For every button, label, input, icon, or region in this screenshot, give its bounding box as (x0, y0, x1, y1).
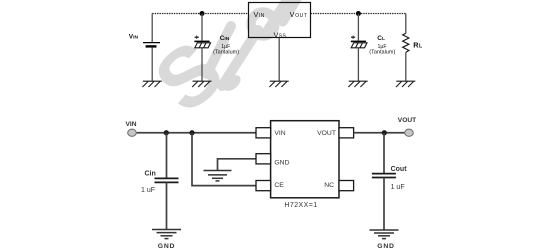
wire CIN top (201, 14, 203, 41)
ground (GND pin) signal ground (204, 171, 232, 181)
svg-text:Cout: Cout (391, 166, 408, 173)
wire output rail (354, 132, 405, 134)
wire CL top (357, 14, 359, 41)
watermark blob (220, 72, 243, 94)
pin box GND (256, 154, 271, 164)
svg-text:1 uF: 1 uF (391, 184, 405, 191)
svg-text:VOUT: VOUT (317, 130, 336, 137)
svg-text:(Tantalum): (Tantalum) (369, 50, 395, 56)
watermark letter P bowl (251, 12, 275, 36)
svg-text:CE: CE (274, 182, 284, 189)
svg-text:CL: CL (377, 35, 385, 42)
ground (CIN) (192, 81, 211, 87)
capacitor CIN (tantalum) (194, 41, 210, 47)
capacitor Cin (155, 178, 179, 182)
ground (VSS) (269, 81, 288, 87)
ground (CL) (348, 81, 367, 87)
IC U2 H72XX-1 box (271, 121, 339, 198)
wire Cin to ground (166, 182, 168, 229)
IC U1 regulator box (249, 3, 311, 38)
wire dashed rail right (311, 13, 406, 15)
ground (RL) (396, 81, 415, 87)
node junction CE (189, 130, 194, 135)
watermark letter S (137, 22, 240, 130)
svg-text:CIN: CIN (220, 35, 230, 42)
svg-text:GND: GND (158, 243, 176, 250)
svg-text:1 uF: 1 uF (141, 187, 155, 194)
svg-text:GND: GND (377, 243, 395, 250)
ground (Cout) signal ground (370, 230, 399, 239)
terminal VOUT (405, 129, 414, 136)
wire dashed rail left (152, 13, 248, 15)
pin box CE (256, 181, 271, 191)
capacitor CL (tantalum) (351, 41, 367, 47)
node junction Cout (382, 130, 387, 135)
ground (Cin) signal ground (152, 230, 181, 239)
svg-text:VIN: VIN (129, 34, 139, 41)
svg-text:NC: NC (324, 182, 334, 189)
wire VSS (278, 38, 280, 81)
wire CIN bottom (201, 48, 203, 81)
pin box NC (339, 181, 354, 191)
pin box VIN (256, 128, 271, 138)
svg-text:(Tantalum): (Tantalum) (213, 50, 239, 56)
svg-text:VIN: VIN (126, 121, 137, 128)
terminal VIN (128, 129, 137, 136)
ground (battery) (143, 81, 162, 87)
wire Cout to ground (383, 178, 385, 231)
wire Cout vertical (383, 133, 385, 174)
watermark letter I bar (207, 26, 231, 74)
pin box VOUT (339, 128, 354, 138)
plus sign CL (351, 36, 355, 39)
watermark partial letter (266, 0, 289, 33)
svg-text:H72XX=1: H72XX=1 (284, 202, 317, 209)
node junction CIN (200, 11, 205, 16)
svg-text:VIN: VIN (274, 130, 285, 137)
node junction CL (356, 11, 361, 16)
svg-text:VOUT: VOUT (398, 117, 416, 124)
watermark letter P stem (222, 30, 258, 86)
wire GND pin (218, 159, 257, 171)
wire input rail (137, 132, 256, 134)
plus sign CIN (195, 36, 199, 39)
svg-text:GND: GND (274, 159, 289, 166)
resistor RL (403, 14, 409, 82)
node junction Cin (164, 130, 169, 135)
capacitor Cout (372, 174, 396, 178)
wire Cin vertical (166, 133, 168, 179)
battery VIN (143, 14, 160, 82)
wire CE vertical (192, 133, 256, 186)
svg-text:Cin: Cin (145, 171, 156, 178)
wire CL bottom (357, 48, 359, 81)
